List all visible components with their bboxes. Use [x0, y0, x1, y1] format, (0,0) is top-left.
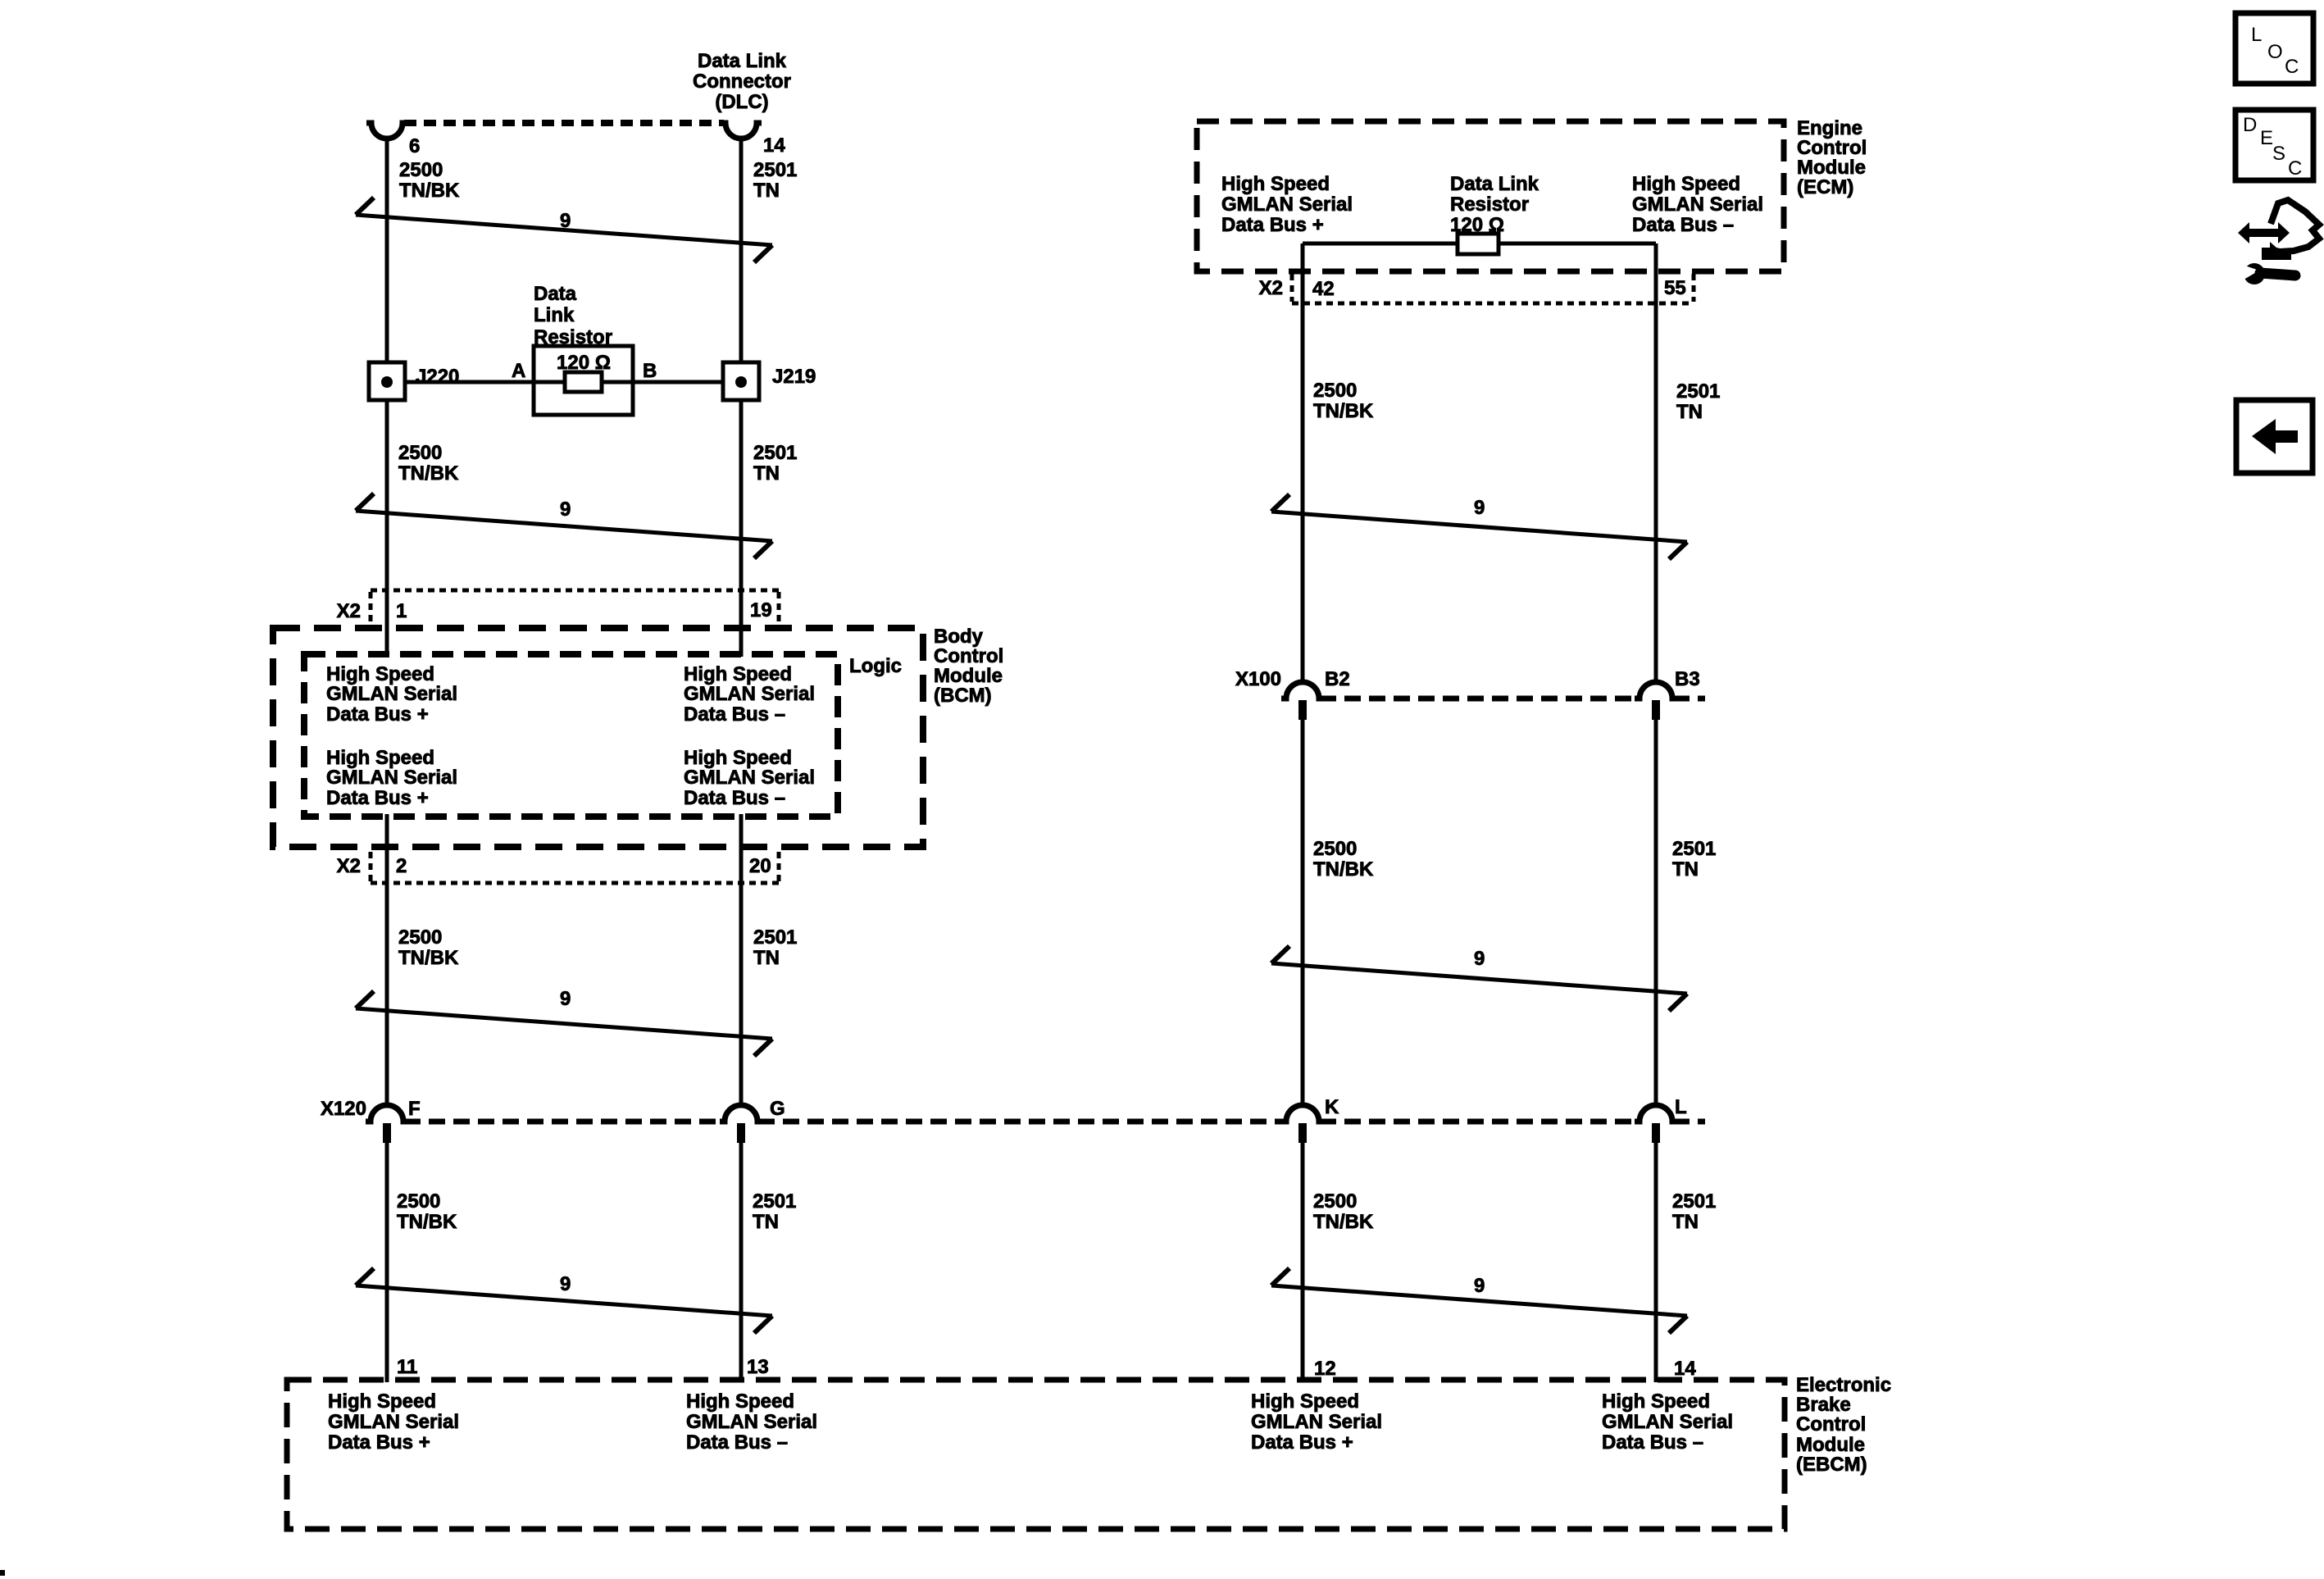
- svg-text:Module: Module: [1796, 1434, 1865, 1456]
- svg-text:Data Bus +: Data Bus +: [326, 703, 429, 726]
- svg-text:High Speed: High Speed: [1632, 173, 1740, 195]
- svg-text:G: G: [770, 1098, 785, 1120]
- svg-text:20: 20: [749, 855, 771, 877]
- svg-text:Logic: Logic: [849, 655, 902, 677]
- svg-text:(BCM): (BCM): [934, 685, 992, 707]
- splice J220: [369, 362, 405, 400]
- connector X120 terminal L: [1635, 1105, 1677, 1143]
- svg-text:GMLAN Serial: GMLAN Serial: [326, 683, 457, 705]
- connector X100 dashed line: [1320, 696, 1705, 702]
- module BCM outline: [273, 628, 923, 847]
- svg-text:Control: Control: [934, 645, 1003, 667]
- svg-text:GMLAN Serial: GMLAN Serial: [328, 1411, 459, 1433]
- svg-text:Brake: Brake: [1796, 1394, 1851, 1416]
- wire 2500 TN/BK (DLC pin 6 down to BCM): [385, 137, 389, 657]
- twisted-pair symbol 9 (X100 to X120): [1271, 946, 1687, 1011]
- svg-text:GMLAN Serial: GMLAN Serial: [686, 1411, 817, 1433]
- svg-text:Data Bus +: Data Bus +: [326, 787, 429, 809]
- svg-text:Control: Control: [1797, 137, 1867, 159]
- icon LOC box: [2235, 13, 2313, 84]
- wire 2501 TN (X120 L down to EBCM pin 14): [1654, 1143, 1658, 1382]
- svg-text:2500: 2500: [1313, 838, 1357, 860]
- svg-text:X100: X100: [1235, 668, 1281, 690]
- wire 2500 TN/BK (X120 K down to EBCM pin 12): [1301, 1143, 1305, 1382]
- twisted-pair symbol 9 (ECM to X100): [1271, 494, 1687, 559]
- svg-text:TN: TN: [753, 947, 780, 969]
- svg-text:2501: 2501: [1672, 838, 1716, 860]
- svg-text:TN: TN: [753, 1211, 779, 1233]
- svg-text:High Speed: High Speed: [684, 747, 792, 769]
- data link resistor outer box: [534, 346, 633, 415]
- svg-text:42: 42: [1312, 278, 1335, 300]
- svg-text:TN: TN: [1672, 1211, 1699, 1233]
- connector X120 terminal F: [366, 1105, 408, 1143]
- svg-text:B2: B2: [1325, 668, 1350, 690]
- svg-text:X2: X2: [337, 855, 361, 877]
- wire 2501 TN (DLC pin 14 down to BCM): [739, 137, 744, 657]
- svg-text:High Speed: High Speed: [326, 663, 434, 685]
- svg-text:Data: Data: [534, 283, 577, 305]
- svg-text:High Speed: High Speed: [684, 663, 792, 685]
- svg-text:TN/BK: TN/BK: [399, 180, 460, 202]
- wire splice bus J220-J219: [387, 380, 741, 385]
- connector X2 (BCM bottom): [371, 852, 779, 883]
- wire 2500 TN/BK (X120 F down to EBCM pin 11): [385, 1143, 389, 1382]
- icon wiring/tools (double arrow, bent-arrow outline, wrench): [2238, 200, 2319, 284]
- svg-text:2500: 2500: [397, 1190, 440, 1213]
- connector DLC dashed line: [404, 120, 724, 126]
- svg-text:2500: 2500: [398, 926, 442, 949]
- twisted-pair symbol 9 (X120 to EBCM right): [1271, 1268, 1687, 1333]
- svg-text:Module: Module: [1797, 157, 1866, 179]
- svg-text:TN: TN: [753, 180, 780, 202]
- svg-text:9: 9: [560, 988, 571, 1010]
- svg-text:Data Bus –: Data Bus –: [684, 703, 785, 726]
- svg-text:TN: TN: [753, 462, 780, 485]
- svg-text:GMLAN Serial: GMLAN Serial: [326, 767, 457, 789]
- svg-text:D: D: [2243, 114, 2257, 136]
- connector X120 terminal K: [1281, 1105, 1324, 1143]
- svg-text:Data Bus –: Data Bus –: [686, 1431, 788, 1454]
- twisted-pair symbol 9 (BCM to X120): [356, 988, 772, 1056]
- svg-text:Control: Control: [1796, 1413, 1866, 1436]
- svg-text:2500: 2500: [1313, 1190, 1357, 1213]
- svg-text:2500: 2500: [1313, 380, 1357, 402]
- svg-text:9: 9: [560, 498, 571, 521]
- wire 2501 TN (ECM pin 55 down to X100 B3): [1654, 243, 1658, 682]
- svg-text:9: 9: [560, 210, 571, 232]
- svg-text:14: 14: [763, 134, 785, 157]
- svg-text:Resistor: Resistor: [1450, 193, 1529, 216]
- svg-text:Data Link: Data Link: [698, 50, 787, 72]
- svg-text:TN: TN: [1672, 858, 1699, 881]
- svg-text:High Speed: High Speed: [326, 747, 434, 769]
- svg-text:E: E: [2260, 127, 2273, 149]
- twisted-pair symbol 9 (DLC to splice): [356, 198, 772, 262]
- resistor element: [565, 372, 602, 392]
- svg-text:2500: 2500: [399, 159, 443, 181]
- icon back-arrow box: [2236, 400, 2313, 473]
- svg-text:L: L: [2251, 24, 2262, 46]
- svg-text:GMLAN Serial: GMLAN Serial: [1602, 1411, 1733, 1433]
- svg-text:6: 6: [409, 135, 420, 157]
- svg-text:Data Bus +: Data Bus +: [1221, 214, 1324, 236]
- svg-text:11: 11: [397, 1356, 417, 1378]
- connector X120 terminal G: [720, 1105, 762, 1143]
- connector X2 (BCM top): [371, 590, 779, 625]
- twisted-pair symbol 9 (X120 to EBCM left): [356, 1268, 772, 1333]
- svg-text:A: A: [512, 360, 525, 382]
- svg-text:9: 9: [1474, 948, 1485, 970]
- twisted-pair symbol 9 (splice to BCM): [356, 494, 772, 558]
- wire 2501 TN (X100 B3 down to X120 L): [1654, 720, 1658, 1105]
- svg-text:2501: 2501: [1676, 380, 1720, 403]
- svg-text:2501: 2501: [753, 159, 797, 181]
- svg-text:High Speed: High Speed: [328, 1390, 436, 1413]
- svg-text:K: K: [1325, 1096, 1339, 1118]
- connector DLC terminal pin 14: [721, 123, 762, 139]
- connector X120 dashed line: [404, 1119, 1705, 1125]
- module ECM outline: [1197, 121, 1784, 271]
- svg-text:13: 13: [747, 1356, 769, 1378]
- svg-text:TN/BK: TN/BK: [398, 947, 459, 969]
- wire 2501 TN (BCM pin 20 down to X120): [739, 814, 744, 1105]
- svg-text:Connector: Connector: [693, 71, 791, 93]
- svg-text:X120: X120: [321, 1098, 366, 1120]
- wire 2500 TN/BK (BCM pin 2 down to X120): [385, 814, 389, 1105]
- svg-text:TN/BK: TN/BK: [398, 462, 459, 485]
- svg-text:F: F: [408, 1098, 421, 1120]
- svg-text:9: 9: [1474, 1275, 1485, 1297]
- svg-text:2500: 2500: [398, 442, 442, 464]
- svg-text:J220: J220: [416, 366, 459, 388]
- svg-text:High Speed: High Speed: [686, 1390, 794, 1413]
- svg-text:GMLAN Serial: GMLAN Serial: [1251, 1411, 1382, 1433]
- svg-text:9: 9: [1474, 497, 1485, 519]
- svg-text:2501: 2501: [753, 1190, 796, 1213]
- svg-text:Data Link: Data Link: [1450, 173, 1539, 195]
- svg-text:X2: X2: [1259, 277, 1283, 299]
- svg-text:12: 12: [1314, 1358, 1336, 1380]
- svg-text:Data Bus +: Data Bus +: [1251, 1431, 1353, 1454]
- ECM internal resistor bus wire: [1303, 242, 1656, 246]
- svg-text:TN/BK: TN/BK: [397, 1211, 457, 1233]
- svg-text:2: 2: [396, 855, 407, 877]
- svg-text:Data Bus +: Data Bus +: [328, 1431, 430, 1454]
- icon DESC box: [2235, 110, 2313, 180]
- svg-text:(DLC): (DLC): [715, 91, 768, 113]
- svg-text:14: 14: [1674, 1358, 1696, 1380]
- svg-text:High Speed: High Speed: [1602, 1390, 1710, 1413]
- svg-text:C: C: [2285, 56, 2299, 78]
- svg-text:19: 19: [750, 599, 772, 621]
- connector X100 terminal B2: [1281, 682, 1324, 720]
- wire 2500 TN/BK (ECM pin 42 down to X100 B2): [1301, 243, 1305, 682]
- svg-text:TN/BK: TN/BK: [1313, 400, 1374, 422]
- svg-text:GMLAN Serial: GMLAN Serial: [1221, 193, 1353, 216]
- svg-text:B3: B3: [1675, 668, 1700, 690]
- svg-text:2501: 2501: [1672, 1190, 1716, 1213]
- svg-text:Data Bus –: Data Bus –: [1602, 1431, 1703, 1454]
- svg-text:O: O: [2267, 41, 2283, 63]
- svg-text:Engine: Engine: [1797, 117, 1862, 139]
- svg-text:TN/BK: TN/BK: [1313, 858, 1374, 881]
- svg-text:(EBCM): (EBCM): [1796, 1454, 1867, 1476]
- svg-text:Body: Body: [934, 626, 984, 648]
- svg-text:2501: 2501: [753, 442, 797, 464]
- ECM data link resistor element: [1458, 234, 1499, 254]
- svg-text:J219: J219: [772, 366, 816, 388]
- svg-text:GMLAN Serial: GMLAN Serial: [684, 767, 815, 789]
- svg-text:S: S: [2272, 143, 2285, 165]
- BCM logic block outline: [304, 654, 838, 817]
- svg-text:Link: Link: [534, 304, 575, 326]
- wire 2500 TN/BK (X100 B2 down to X120 K): [1301, 720, 1305, 1105]
- svg-text:GMLAN Serial: GMLAN Serial: [1632, 193, 1763, 216]
- svg-text:High Speed: High Speed: [1221, 173, 1330, 195]
- svg-text:TN: TN: [1676, 401, 1703, 423]
- module EBCM outline: [287, 1380, 1785, 1529]
- svg-text:Data Bus –: Data Bus –: [1632, 214, 1734, 236]
- svg-text:(ECM): (ECM): [1797, 176, 1853, 198]
- svg-text:High Speed: High Speed: [1251, 1390, 1359, 1413]
- svg-text:C: C: [2288, 157, 2302, 180]
- svg-text:L: L: [1675, 1096, 1687, 1118]
- svg-text:9: 9: [560, 1273, 571, 1295]
- wire 2501 TN (X120 G down to EBCM pin 13): [739, 1143, 744, 1382]
- connector X100 terminal B3: [1635, 682, 1677, 720]
- svg-text:Data Bus –: Data Bus –: [684, 787, 785, 809]
- connector DLC terminal pin 6: [366, 123, 407, 139]
- connector X2 (ECM bottom): [1292, 274, 1694, 303]
- svg-text:Module: Module: [934, 665, 1003, 687]
- svg-text:1: 1: [396, 600, 407, 622]
- page artifact dot: [0, 1570, 5, 1576]
- splice J219: [723, 362, 759, 400]
- svg-text:GMLAN Serial: GMLAN Serial: [684, 683, 815, 705]
- svg-text:2501: 2501: [753, 926, 797, 949]
- svg-text:B: B: [643, 360, 657, 382]
- svg-text:X2: X2: [337, 600, 361, 622]
- svg-text:TN/BK: TN/BK: [1313, 1211, 1374, 1233]
- svg-text:55: 55: [1664, 277, 1686, 299]
- svg-text:Electronic: Electronic: [1796, 1374, 1891, 1396]
